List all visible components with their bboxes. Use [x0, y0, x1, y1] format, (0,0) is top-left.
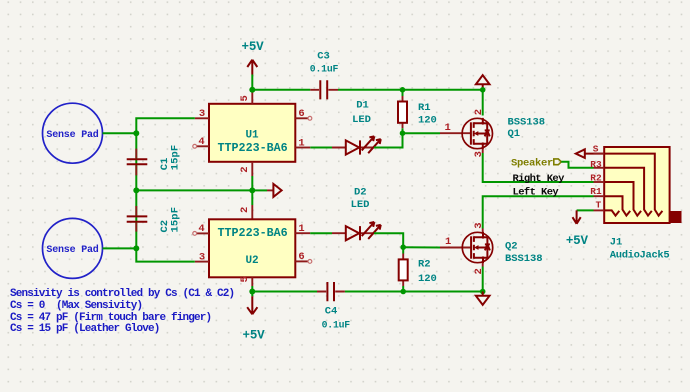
power +5V bottom symbol — [243, 292, 266, 343]
wire junction to U-pin2 column — [136, 189, 252, 191]
svg-text:4: 4 — [198, 223, 204, 235]
svg-text:Cs = 15 pF (Leather Glove): Cs = 15 pF (Leather Glove) — [10, 323, 160, 335]
wire U1 pin1 to D1 — [310, 147, 332, 149]
svg-text:+5V: +5V — [242, 40, 265, 54]
svg-text:LED: LED — [352, 114, 371, 126]
svg-text:5: 5 — [239, 276, 251, 282]
power +5V jack symbol — [566, 210, 589, 248]
svg-text:1: 1 — [298, 137, 304, 149]
svg-text:15pF: 15pF — [169, 207, 181, 233]
pin 1 U2 — [295, 223, 310, 235]
junction pad2 — [133, 245, 139, 251]
svg-text:4: 4 — [198, 136, 204, 148]
pin 6 U1 — [295, 108, 312, 120]
svg-text:0.1uF: 0.1uF — [310, 64, 339, 75]
svg-text:Q2: Q2 — [505, 240, 518, 252]
capacitor C1 — [127, 145, 182, 176]
pin R1 jack — [590, 186, 604, 197]
wire R1 bottom to junction — [402, 128, 404, 133]
ground — [476, 292, 490, 305]
svg-text:5: 5 — [239, 95, 251, 101]
transistor Q1 BSS138 — [462, 118, 492, 149]
svg-text:0.1uF: 0.1uF — [322, 320, 351, 331]
junction top rail / R1 — [400, 87, 406, 93]
global label Speaker — [511, 158, 561, 170]
junction pad1 — [133, 130, 139, 136]
svg-text:1: 1 — [445, 236, 451, 248]
svg-text:+5V: +5V — [243, 328, 266, 342]
pin 3 U2 — [195, 251, 209, 263]
power +5V top symbol — [242, 40, 265, 75]
wire Q2 source to rail — [482, 267, 484, 292]
wire U2 pin5 to bottom rail — [251, 286, 253, 292]
wire junction to Q1 gate — [403, 132, 441, 134]
svg-text:R2: R2 — [590, 173, 602, 184]
pin 6 U2 — [295, 251, 312, 263]
pin T jack — [594, 200, 605, 211]
sense pad 1 — [43, 103, 103, 163]
svg-text:LED: LED — [351, 199, 370, 211]
wire T to +5V — [577, 209, 594, 211]
svg-text:Sense Pad: Sense Pad — [46, 244, 98, 256]
wire +5V to junction — [251, 75, 253, 90]
svg-text:120: 120 — [418, 273, 437, 285]
IC U1 TTP223-BA6 — [209, 104, 295, 162]
pin 3 U1 — [195, 108, 209, 120]
svg-text:D1: D1 — [356, 100, 369, 112]
svg-text:Left Key: Left Key — [513, 187, 560, 199]
pin 4 U2 — [193, 223, 209, 235]
pin 5 U1 — [239, 90, 252, 104]
resistor R1 — [398, 90, 437, 129]
notes text block — [10, 288, 234, 335]
wire junction to arrow — [252, 189, 267, 191]
capacitor C3 — [310, 51, 339, 100]
wire C column — [136, 133, 195, 261]
LED D2 — [332, 186, 381, 240]
svg-text:R1: R1 — [590, 186, 602, 197]
pin 4 U1 — [193, 136, 209, 148]
wire R2 bottom to rail — [402, 286, 404, 292]
wire top rail left segment — [252, 89, 310, 91]
pin 3 Q1 source — [473, 149, 485, 157]
svg-text:D2: D2 — [354, 186, 367, 198]
junction top rail / Q1 drain — [480, 87, 486, 93]
svg-text:Sense Pad: Sense Pad — [46, 129, 98, 141]
LED D1 — [332, 100, 381, 155]
svg-text:J1: J1 — [610, 236, 623, 248]
svg-text:R1: R1 — [418, 102, 431, 114]
svg-text:1: 1 — [445, 122, 451, 134]
wire pad2 to C column — [103, 247, 137, 249]
wire U2 pin1 to D2 — [310, 232, 332, 234]
IC U2 TTP223-BA6 — [209, 219, 295, 277]
svg-text:3: 3 — [199, 108, 205, 120]
power flag arrow above Q1 — [476, 75, 490, 90]
junction D2 / R2 / Q2 gate — [400, 244, 406, 250]
label BSS138 Q1 — [508, 117, 546, 141]
transistor Q2 BSS138 — [462, 232, 492, 263]
wire junction to U2 pin2 — [251, 190, 253, 205]
svg-text:Right Key: Right Key — [513, 173, 566, 185]
svg-text:2: 2 — [239, 207, 251, 213]
wire Q1 source to Right Key row — [483, 153, 594, 182]
junction rail / Q2 source / ground — [480, 289, 486, 295]
pin 3 Q2 drain — [473, 222, 485, 232]
pin R3 jack — [590, 159, 604, 170]
svg-text:U2: U2 — [245, 255, 258, 267]
wire Left Key row to Q2 drain — [483, 196, 594, 228]
svg-text:S: S — [593, 143, 599, 154]
pin 2 U2 — [239, 205, 252, 219]
pin 2 Q1 drain — [473, 90, 485, 116]
svg-text:Speaker: Speaker — [511, 158, 553, 170]
svg-text:BSS138: BSS138 — [508, 117, 546, 129]
svg-text:C3: C3 — [317, 51, 330, 63]
pin 2 U1 — [239, 162, 252, 176]
pin S jack — [593, 143, 604, 154]
svg-text:2: 2 — [473, 109, 485, 115]
pin 2 Q2 source — [473, 263, 485, 275]
svg-text:Q1: Q1 — [508, 128, 521, 140]
connector J1 AudioJack5 — [604, 147, 681, 262]
svg-text:6: 6 — [298, 108, 304, 120]
svg-text:Cs = 0 (Max Sensivity): Cs = 0 (Max Sensivity) — [10, 300, 142, 312]
wire junction to Q2 gate — [403, 246, 440, 248]
svg-text:TTP223-BA6: TTP223-BA6 — [218, 226, 288, 240]
svg-text:1: 1 — [298, 223, 304, 235]
svg-text:TTP223-BA6: TTP223-BA6 — [218, 141, 288, 155]
label Q2 BSS138 — [505, 240, 543, 264]
svg-text:2: 2 — [239, 166, 251, 172]
junction pin2 column — [249, 187, 255, 193]
junction rail / U2 pin5 — [249, 289, 255, 295]
svg-text:U1: U1 — [245, 130, 259, 142]
wire bottom rail left — [252, 291, 317, 293]
svg-text:C4: C4 — [325, 305, 338, 317]
svg-text:R3: R3 — [590, 159, 602, 170]
pin 1 Q1 gate — [440, 122, 471, 134]
pin R2 jack — [590, 173, 604, 184]
capacitor C4 — [317, 282, 350, 331]
svg-text:120: 120 — [418, 115, 437, 127]
wire U1 pin2 to junction — [251, 176, 253, 190]
junction R1 / D1 / Q1 gate — [400, 130, 406, 136]
svg-text:BSS138: BSS138 — [505, 253, 543, 265]
junction rail / R2 — [400, 289, 406, 295]
pin 5 U2 — [239, 276, 252, 286]
svg-text:+5V: +5V — [566, 234, 589, 248]
svg-text:6: 6 — [298, 251, 304, 263]
svg-text:15pF: 15pF — [169, 145, 181, 171]
wire top rail right segment — [338, 89, 483, 91]
capacitor C2 — [127, 206, 182, 233]
wire pad1 junction up to U1 pin3 — [136, 118, 195, 133]
junction C column / pin2 wire — [133, 187, 139, 193]
svg-text:Sensivity is controlled by Cs: Sensivity is controlled by Cs (C1 & C2) — [10, 288, 234, 300]
wire bottom rail right — [345, 291, 483, 293]
svg-text:AudioJack5: AudioJack5 — [610, 250, 670, 262]
wire D2 to R2 junction column — [374, 233, 403, 247]
hierarchical arrow S pin — [576, 149, 604, 158]
pin 1 U1 — [295, 137, 310, 149]
svg-text:3: 3 — [199, 251, 205, 263]
pin 1 Q2 gate — [440, 236, 471, 248]
svg-text:Cs = 47 pF (Firm touch bare fi: Cs = 47 pF (Firm touch bare finger) — [10, 312, 211, 324]
sense pad 2 — [43, 218, 103, 278]
wire D1 to R1 junction column — [374, 133, 403, 147]
svg-text:T: T — [596, 200, 602, 211]
wire Speaker to jack R3 — [561, 162, 593, 168]
resistor R2 — [399, 247, 437, 286]
junction U1 pin5 / +5V — [249, 87, 255, 93]
svg-text:R2: R2 — [418, 258, 431, 270]
unconnected arrow node — [267, 189, 273, 191]
wire pad1 to C column — [103, 132, 137, 134]
